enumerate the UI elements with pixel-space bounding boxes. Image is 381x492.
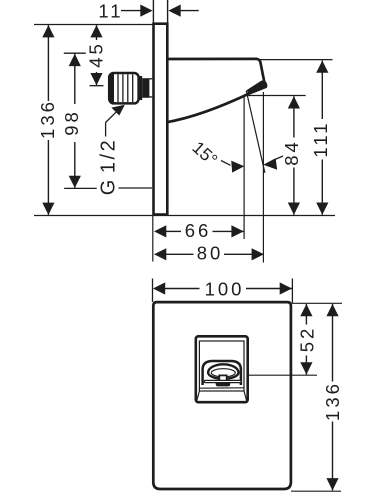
svg-text:111: 111 — [310, 120, 331, 157]
leader from opening to 52 — [248, 374, 317, 376]
dimension 11 extension lines — [152, 0, 154, 23]
niche perspective diagonals — [197, 391, 200, 401]
spout profile (side view) — [167, 59, 266, 122]
aerator outer ellipse — [208, 364, 238, 379]
left extension below plate — [152, 216, 154, 262]
bottom extension line right of plate — [291, 490, 341, 492]
G1/2 nut — [138, 76, 142, 100]
top extension line (plate top, left) — [34, 24, 153, 26]
dimension 52 — [305, 304, 307, 325]
wall plate (side view) — [154, 24, 168, 215]
svg-text:11: 11 — [98, 1, 123, 22]
G1/2 knurled cap — [109, 73, 138, 103]
vertical line at spout tip — [262, 92, 264, 263]
svg-text:80: 80 — [197, 243, 224, 264]
plate (front view) — [153, 302, 291, 489]
extension line mouth level — [247, 95, 306, 97]
svg-text:52: 52 — [296, 326, 317, 353]
extension line spout top right — [258, 59, 333, 61]
98 bottom extension to plate (through G label) — [64, 187, 97, 189]
slanted 15 degree line — [246, 91, 265, 173]
dimension 66 — [154, 225, 166, 237]
dimension 80 — [154, 248, 166, 260]
top extension line right of plate — [292, 302, 342, 304]
dimension 98 — [64, 52, 86, 54]
bottom blob — [216, 383, 231, 387]
niche floor line — [200, 387, 244, 389]
dimension 136 (front view) — [332, 304, 334, 382]
spout front: arch — [203, 361, 241, 385]
dimension 100 — [153, 282, 165, 294]
svg-text:15°: 15° — [188, 137, 221, 170]
dimension 136 (side view) — [47, 25, 49, 101]
svg-text:136: 136 — [37, 99, 58, 139]
G1/2 stub — [149, 78, 152, 80]
15 degree leader + arrows — [221, 161, 231, 166]
dimension 84 — [293, 96, 295, 137]
aerator inner ellipse — [211, 369, 235, 377]
G1/2 leader — [105, 123, 107, 137]
bottom extension line (plate bottom) — [34, 215, 335, 217]
svg-text:45: 45 — [85, 41, 106, 68]
dimension 11 leader + arrows — [121, 10, 142, 12]
opening inner rect — [199, 341, 244, 391]
dimension 100 extension lines — [152, 279, 154, 303]
vertical line at aerator — [243, 97, 245, 240]
opening outer rect — [196, 336, 248, 402]
dimension 111 — [321, 61, 323, 120]
base bar — [204, 380, 241, 382]
svg-text:G 1/2: G 1/2 — [98, 138, 120, 195]
svg-text:84: 84 — [281, 139, 302, 166]
svg-text:98: 98 — [61, 109, 82, 136]
svg-text:100: 100 — [205, 279, 245, 300]
svg-text:66: 66 — [185, 220, 212, 241]
svg-text:136: 136 — [322, 381, 343, 421]
neck — [219, 375, 226, 381]
dimension 45 — [96, 25, 98, 40]
